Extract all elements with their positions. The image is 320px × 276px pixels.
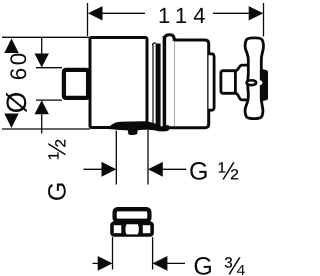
handle vertical spoke (bone shape) — [245, 38, 263, 119]
arrow G3/4 right (pointing left) — [153, 256, 168, 271]
dimension line 114 left segment — [100, 12, 145, 14]
collar top cap — [164, 35, 174, 41]
cartridge housing white body — [175, 40, 209, 128]
extension line right of 114 dim — [263, 3, 265, 37]
stem — [221, 71, 236, 94]
extension line left of 114 dim — [87, 3, 89, 36]
arrow G1/2 mid right (pointing left) — [148, 162, 163, 177]
extension line G3/4 left — [112, 237, 114, 270]
outlet tick below blob — [128, 129, 139, 135]
arrow G3/4 left (pointing right) — [98, 256, 113, 271]
inner tube thick band — [156, 44, 161, 129]
svg-text:G ½: G ½ — [44, 131, 72, 201]
arrow Ø60 bottom — [4, 114, 18, 129]
hex left facet window — [114, 225, 122, 233]
extension line G1/2 mid right — [147, 130, 149, 185]
hex middle facet window — [125, 224, 138, 234]
extension line body top (for Ø60) — [2, 36, 89, 38]
arrow G1/2 left top — [35, 54, 49, 68]
label Ø60 rotated — [1, 50, 32, 113]
hub knob (black, cropped at right edge) — [260, 69, 269, 101]
dim tail G3/4 right — [167, 262, 185, 264]
extension line body bottom (for Ø60) — [2, 128, 90, 130]
arrow 114 left — [88, 6, 103, 20]
arrow G1/2 mid left (pointing right) — [102, 162, 117, 177]
hose nut top band — [115, 209, 150, 221]
cartridge housing outline (top, right, bottom) — [167, 40, 209, 128]
collar left edge — [163, 36, 167, 128]
extension line union bottom — [36, 99, 62, 101]
arrow 114 right — [249, 6, 264, 20]
inner tube thin left line — [152, 45, 154, 127]
extension line G3/4 right — [152, 237, 154, 270]
dimension line 114 right segment — [213, 12, 250, 14]
collar right thin edge — [174, 38, 176, 127]
hub ellipse — [247, 80, 257, 85]
handle bar (left spoke) — [235, 65, 250, 100]
extension line union top — [36, 67, 62, 69]
hose nut hex body — [110, 221, 154, 237]
svg-text:114: 114 — [158, 3, 212, 28]
hex right facet window — [143, 225, 151, 233]
hub ellipse white notch — [249, 79, 263, 86]
svg-text:G ½: G ½ — [189, 158, 240, 186]
dim line G1/2 left lower segment — [41, 114, 43, 133]
arrow G1/2 left bottom — [35, 100, 49, 114]
dim line G1/2 left upper segment — [41, 37, 43, 54]
dim tail G1/2 mid right — [162, 168, 186, 170]
dim tail G3/4 left — [93, 262, 100, 264]
inner tube in gap — [152, 43, 156, 46]
step ring — [209, 54, 215, 110]
label G1/2 left rotated — [44, 131, 72, 201]
dim tail G1/2 mid left — [83, 168, 103, 170]
arrow Ø60 top — [4, 39, 18, 54]
sleeve (main escutcheon cylinder) — [90, 38, 147, 128]
svg-text:Ø 60: Ø 60 — [1, 50, 32, 113]
wall union (G1/2 square) — [64, 70, 88, 98]
outlet blob + bottom ledge band under sleeve — [107, 121, 170, 131]
collar ring white body — [163, 34, 176, 130]
svg-text:G ¾: G ¾ — [193, 253, 246, 276]
extension line G1/2 mid left — [115, 131, 117, 185]
